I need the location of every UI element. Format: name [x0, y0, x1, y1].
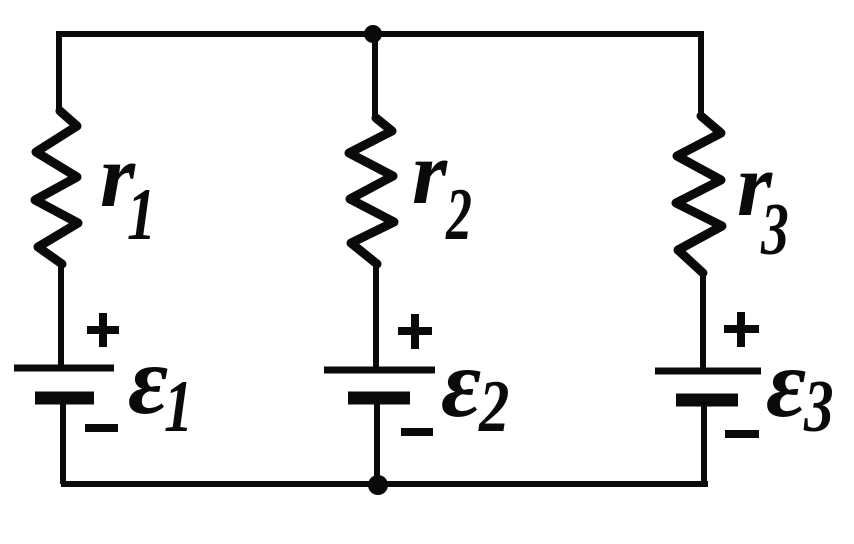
battery E3 negative plate: [676, 394, 738, 407]
minus sign branch1: [85, 424, 118, 432]
svg-text:1: 1: [164, 366, 193, 447]
wire branch2 resistor-to-battery: [373, 262, 379, 368]
minus sign branch2: [401, 428, 433, 436]
plus sign branch2: [398, 314, 432, 349]
wire right vertical upper: [698, 31, 704, 118]
node A (top junction dot): [364, 25, 382, 43]
svg-text:3: 3: [760, 190, 789, 271]
wire branch3 battery-to-bottom: [701, 400, 707, 484]
battery E2 positive plate: [324, 367, 435, 374]
svg-text:r: r: [412, 124, 448, 223]
svg-text:2: 2: [445, 173, 472, 255]
battery E1 positive plate: [14, 365, 114, 372]
wire branch1 resistor-to-battery: [58, 262, 64, 366]
wire branch2 battery-to-bottom: [374, 398, 380, 484]
battery E2 negative plate: [348, 392, 410, 405]
svg-text:3: 3: [803, 366, 833, 448]
wire branch3 resistor-to-battery: [700, 271, 706, 369]
node B (bottom junction dot): [368, 475, 388, 495]
battery E3 positive plate: [655, 368, 761, 375]
wire left vertical upper: [56, 31, 62, 113]
minus sign branch3: [725, 430, 759, 438]
svg-text:ε: ε: [128, 327, 168, 435]
plus sign branch3: [724, 312, 759, 347]
resistor r2: [349, 118, 394, 264]
svg-text:1: 1: [127, 174, 156, 255]
wire top horizontal: [56, 31, 702, 37]
wire bottom horizontal: [61, 481, 708, 487]
svg-text:ε: ε: [441, 330, 481, 438]
battery E1 negative plate: [35, 392, 94, 405]
svg-text:ε: ε: [766, 330, 806, 438]
wire branch1 battery-to-bottom: [60, 398, 66, 484]
svg-text:2: 2: [478, 365, 509, 447]
resistor r1: [35, 111, 78, 264]
wire middle vertical upper: [372, 34, 378, 119]
resistor r3: [676, 116, 722, 273]
plus sign branch1: [87, 313, 119, 347]
